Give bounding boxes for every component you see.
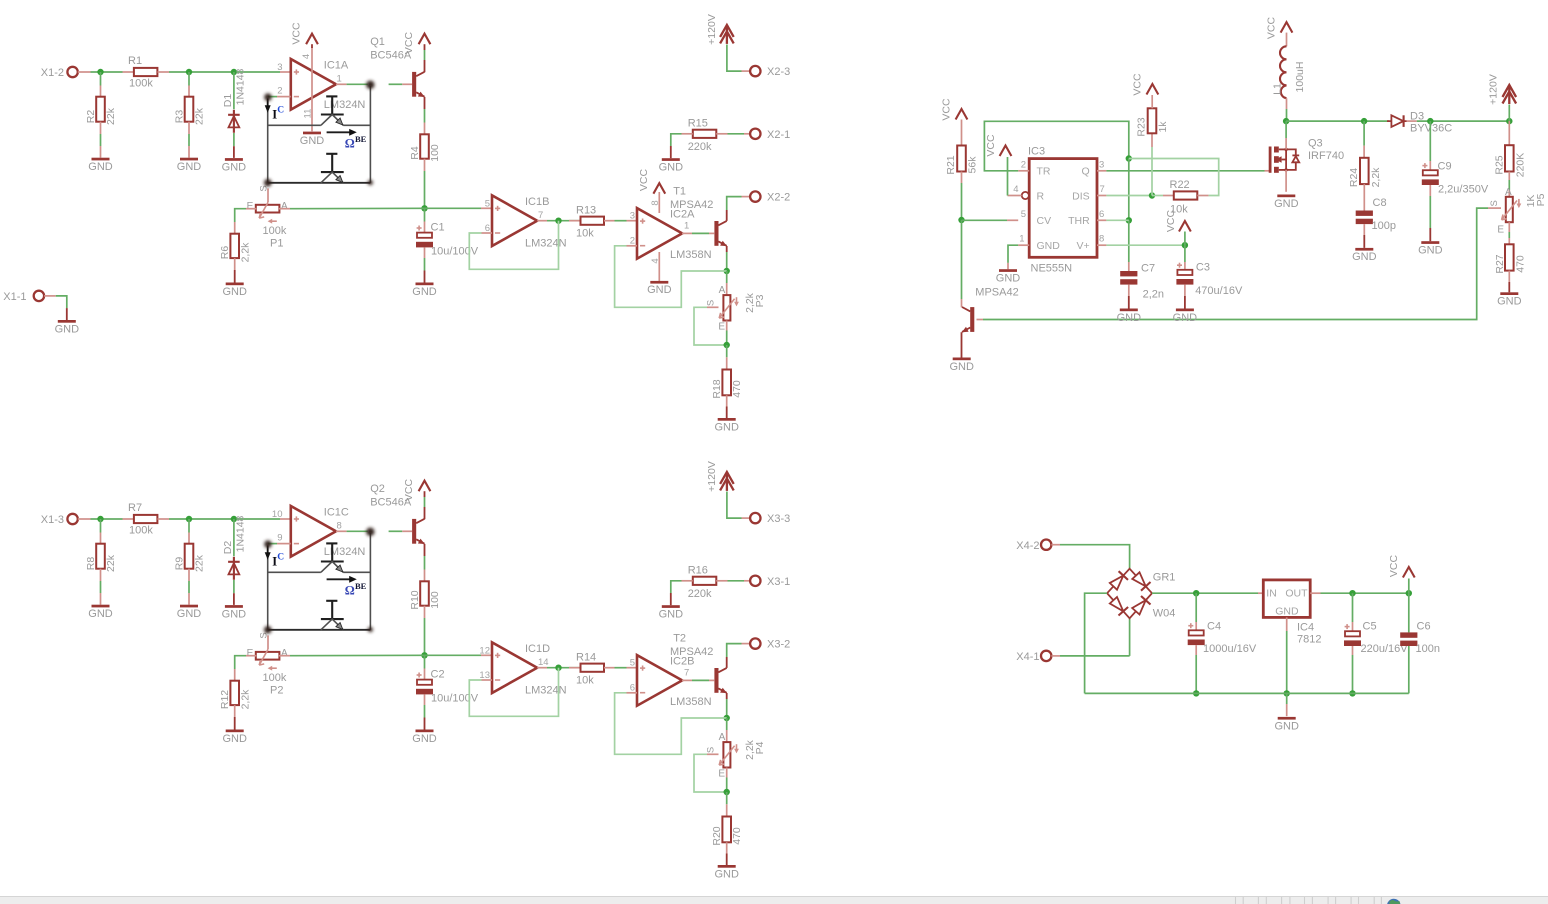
svg-text:C: C: [277, 553, 284, 563]
svg-text:C2: C2: [431, 669, 445, 681]
capacitor C8 100p: [1356, 196, 1396, 248]
power VCC arrow pin8: [1165, 209, 1191, 245]
svg-text:GND: GND: [1352, 251, 1377, 263]
capacitor C7 2,2n: [1120, 263, 1164, 309]
svg-text:2,2k: 2,2k: [240, 242, 252, 263]
svg-text:R10: R10: [409, 590, 421, 609]
wire Q3 source to ground: [1285, 170, 1287, 192]
wire pot A to node: [279, 654, 425, 656]
svg-text:P5: P5: [1535, 193, 1547, 206]
junction: [97, 516, 103, 522]
resistor R24 2,2k: [1348, 121, 1382, 196]
power +120V arrow: [706, 14, 750, 71]
svg-text:3: 3: [277, 62, 282, 73]
svg-text:S: S: [1489, 200, 1500, 206]
resistor R4 100: [409, 97, 441, 171]
svg-text:R21: R21: [945, 155, 957, 174]
svg-text:2: 2: [277, 86, 282, 97]
ground pin11: [300, 132, 325, 147]
ground: [177, 158, 202, 173]
svg-text:R8: R8: [85, 557, 97, 571]
resistor R16 220k: [671, 565, 750, 606]
svg-text:100k: 100k: [263, 672, 287, 684]
svg-text:C3: C3: [1196, 262, 1210, 274]
svg-text:Ω: Ω: [345, 137, 355, 151]
svg-text:GND: GND: [300, 135, 325, 147]
wire R4 to node: [424, 171, 426, 208]
resistor R3 22k: [174, 72, 206, 158]
svg-text:8: 8: [1099, 234, 1104, 245]
connector pad X3-3: [750, 513, 790, 525]
svg-text:BE: BE: [355, 581, 367, 591]
svg-text:T2: T2: [673, 633, 686, 645]
svg-text:P3: P3: [754, 294, 766, 307]
junction: [1193, 590, 1199, 596]
ground: [949, 358, 974, 373]
svg-text:GND: GND: [1117, 312, 1142, 324]
svg-text:9: 9: [277, 533, 282, 544]
annotation overlay sketch (channel 2): [264, 528, 374, 634]
resistor R6 2,2k: [219, 222, 251, 283]
svg-text:VCC: VCC: [403, 31, 415, 54]
resistor R2 22k: [85, 72, 117, 158]
IC3 pin numbers: [1013, 159, 1105, 244]
transistor Q2 BC546A: [370, 483, 425, 544]
svg-text:1N4148: 1N4148: [235, 515, 247, 552]
svg-text:22k: 22k: [105, 107, 117, 125]
wire R to opamp +in: [169, 518, 291, 520]
potentiometer P1 100k: [247, 185, 288, 249]
diode D2 1N4148: [222, 515, 247, 604]
wire opamp out to Q base: [336, 83, 412, 85]
junction: [1361, 118, 1367, 124]
svg-text:100k: 100k: [129, 525, 153, 537]
svg-text:X4-1: X4-1: [1016, 651, 1039, 663]
junction: [186, 69, 192, 75]
wire T collector to X3-2: [727, 644, 750, 668]
svg-text:S: S: [706, 300, 717, 306]
capacitor C4 1000u/16V: [1188, 593, 1257, 693]
svg-text:GND: GND: [1173, 312, 1198, 324]
svg-text:R2: R2: [85, 110, 97, 124]
ground: [1352, 248, 1377, 263]
ground: [55, 320, 80, 335]
svg-text:R23: R23: [1136, 117, 1148, 136]
connector pad X2-1: [750, 129, 790, 141]
wire TR-THR vertical: [1128, 159, 1130, 221]
capacitor C5 220u/16V: [1344, 593, 1408, 693]
svg-text:P1: P1: [270, 237, 283, 249]
junction: [958, 217, 964, 223]
ground: [222, 283, 247, 298]
connector pad X2-3: [750, 66, 790, 78]
resistor R22 10k: [1152, 179, 1209, 216]
svg-text:Q: Q: [1082, 166, 1090, 178]
svg-text:R12: R12: [219, 690, 231, 709]
svg-text:22k: 22k: [194, 107, 206, 125]
svg-text:R7: R7: [128, 502, 142, 514]
svg-text:A: A: [281, 201, 288, 212]
svg-text:A: A: [719, 732, 726, 743]
wire X1-2 to R junction: [91, 71, 123, 73]
wire R22 to TR-THR node: [1129, 159, 1219, 196]
op-amp IC1B LM324N: [485, 195, 567, 249]
svg-text:C6: C6: [1417, 621, 1431, 633]
wire X4-1 to bridge: [1060, 655, 1130, 657]
svg-text:2,2k: 2,2k: [240, 689, 252, 710]
resistor R14 10k: [569, 651, 615, 686]
svg-text:R1: R1: [128, 55, 142, 67]
wire IC4 OUT to VCC: [1310, 592, 1409, 594]
op-amp IC2A LM358N: [630, 186, 714, 262]
svg-text:X2-2: X2-2: [767, 192, 790, 204]
svg-text:10k: 10k: [576, 675, 594, 687]
wire opamp B out: [537, 667, 580, 669]
junction: [1427, 118, 1433, 124]
svg-text:GND: GND: [1037, 240, 1061, 252]
svg-text:D1: D1: [222, 94, 234, 108]
potentiometer P5 1K: [1488, 187, 1547, 236]
svg-text:100uH: 100uH: [1294, 62, 1306, 93]
svg-text:7812: 7812: [1297, 634, 1321, 646]
svg-text:Ω: Ω: [345, 584, 355, 598]
ground: [222, 158, 247, 173]
wire R21 to MPSA42 collector: [961, 220, 963, 307]
svg-text:220k: 220k: [688, 588, 712, 600]
svg-text:2: 2: [630, 235, 635, 246]
potentiometer P2 100k: [247, 632, 288, 696]
diode D3 BYV36C: [1387, 110, 1452, 134]
junction: [1349, 590, 1355, 596]
svg-text:IC1C: IC1C: [324, 506, 349, 518]
svg-text:3: 3: [1099, 159, 1104, 170]
bridge rectifier GR1 W04: [1107, 569, 1175, 620]
svg-text:X1-2: X1-2: [41, 67, 64, 79]
wire Q3 drain: [1285, 121, 1287, 149]
svg-text:VCC: VCC: [638, 168, 650, 191]
transistor Q1 BC546A: [370, 36, 425, 97]
svg-text:TR: TR: [1037, 166, 1051, 178]
svg-text:220k: 220k: [688, 141, 712, 153]
svg-text:GND: GND: [1275, 605, 1299, 617]
wire pot A to node: [279, 207, 425, 209]
op-amp IC2A power pin4 ground: [647, 252, 672, 296]
svg-text:GND: GND: [55, 323, 80, 335]
svg-text:470: 470: [731, 827, 743, 845]
svg-text:56k: 56k: [967, 156, 979, 174]
svg-text:100k: 100k: [263, 225, 287, 237]
wire Q pin3 to gate: [1097, 170, 1270, 172]
svg-text:+120V: +120V: [706, 461, 718, 492]
junction: [1283, 118, 1289, 124]
svg-text:GND: GND: [1418, 245, 1443, 257]
junction: [1506, 118, 1512, 124]
wire R13 to opamp C +in: [615, 220, 638, 222]
svg-text:8: 8: [337, 521, 342, 532]
junction: [555, 218, 561, 224]
svg-text:Q3: Q3: [1308, 137, 1323, 149]
annotation overlay sketch (channel 1): [264, 81, 374, 187]
svg-text:GND: GND: [1274, 721, 1299, 733]
junction: [97, 69, 103, 75]
connector pad X1-1: [3, 291, 67, 320]
wire T emitter to node: [726, 246, 728, 271]
svg-text:X3-3: X3-3: [767, 513, 790, 525]
potentiometer P4 2,2k: [706, 718, 766, 792]
svg-text:1k: 1k: [1157, 121, 1169, 133]
wire X1-3 to R junction: [91, 518, 123, 520]
svg-text:4: 4: [301, 54, 312, 59]
ground pin1: [996, 269, 1021, 284]
junction: [1126, 155, 1132, 161]
svg-text:Q2: Q2: [370, 483, 385, 495]
svg-text:GND: GND: [88, 161, 113, 173]
svg-text:GND: GND: [659, 162, 684, 174]
ground: [1117, 309, 1142, 324]
svg-text:VCC: VCC: [941, 98, 953, 121]
transistor MPSA42 (discharge): [962, 287, 1019, 333]
feedback wire opamp B: [469, 668, 558, 717]
wire GND pin1: [1008, 245, 1029, 269]
svg-text:GND: GND: [222, 161, 247, 173]
svg-text:470u/16V: 470u/16V: [1195, 285, 1243, 297]
svg-text:2,2u/350V: 2,2u/350V: [1438, 184, 1489, 196]
svg-text:LM324N: LM324N: [324, 99, 366, 111]
svg-text:5: 5: [630, 657, 635, 668]
svg-text:R: R: [1037, 190, 1045, 202]
junction: [724, 789, 730, 795]
ground: [222, 730, 247, 745]
svg-text:VCC: VCC: [985, 134, 997, 157]
svg-text:GND: GND: [177, 608, 202, 620]
resistor R23 1k: [1136, 95, 1170, 196]
IC3 pin4 inversion bubble: [1022, 192, 1029, 199]
svg-text:GND: GND: [222, 608, 247, 620]
transistor T1 MPSA42: [714, 221, 727, 246]
svg-text:LM324N: LM324N: [525, 684, 567, 696]
svg-text:1: 1: [1019, 234, 1024, 245]
op-amp IC1C LM324N: [272, 506, 366, 558]
resistor R20 470: [711, 792, 743, 865]
svg-text:1000u/16V: 1000u/16V: [1203, 643, 1257, 655]
svg-text:2: 2: [1021, 159, 1026, 170]
svg-text:VCC: VCC: [1388, 554, 1400, 577]
connector pad X4-2: [1016, 540, 1060, 552]
transistor T2 MPSA42: [714, 668, 727, 693]
junction: [555, 665, 561, 671]
ground: [1418, 241, 1443, 256]
svg-text:X1-1: X1-1: [3, 291, 26, 303]
connector pad X4-1: [1016, 651, 1060, 663]
wire MPSA42 emitter to ground: [961, 332, 963, 357]
svg-text:1N4148: 1N4148: [235, 68, 247, 105]
svg-text:IC2A: IC2A: [670, 209, 695, 221]
svg-text:P2: P2: [270, 684, 283, 696]
svg-text:100: 100: [429, 591, 441, 609]
feedback wire opamp B: [469, 221, 558, 270]
svg-text:GND: GND: [1497, 296, 1522, 308]
svg-text:NE555N: NE555N: [1031, 263, 1073, 275]
svg-text:D2: D2: [222, 541, 234, 555]
svg-text:X1-3: X1-3: [41, 514, 64, 526]
resistor R25 220K: [1494, 121, 1527, 198]
svg-text:R13: R13: [576, 204, 596, 216]
svg-text:LM358N: LM358N: [670, 249, 712, 261]
capacitor C1 10u/100V: [416, 208, 479, 282]
power VCC arrow Q collector: [403, 478, 430, 519]
resistor R27 470: [1494, 222, 1527, 292]
svg-text:A: A: [281, 648, 288, 659]
svg-text:CV: CV: [1037, 215, 1052, 227]
svg-text:C8: C8: [1373, 197, 1387, 209]
svg-text:10: 10: [272, 509, 283, 520]
wire opamp -in stub: [268, 96, 291, 98]
svg-text:IC1B: IC1B: [525, 196, 549, 208]
wire ground rail: [1085, 692, 1409, 694]
svg-text:22k: 22k: [194, 554, 206, 572]
capacitor C2 10u/100V: [416, 655, 479, 729]
svg-text:14: 14: [538, 657, 549, 668]
svg-text:IRF740: IRF740: [1308, 150, 1344, 162]
svg-text:IC1D: IC1D: [525, 643, 550, 655]
resistor R1 100k: [123, 55, 170, 90]
svg-text:GND: GND: [88, 608, 113, 620]
power +120V arrow: [706, 461, 750, 518]
svg-text:LM324N: LM324N: [525, 237, 567, 249]
svg-text:220K: 220K: [1515, 153, 1527, 178]
junction: [421, 205, 427, 211]
wire X4-2 to bridge: [1060, 545, 1130, 569]
svg-text:C7: C7: [1141, 263, 1155, 275]
wire bridge minus to rail: [1085, 593, 1108, 693]
svg-text:GND: GND: [949, 361, 974, 373]
wire switch node rail: [1286, 120, 1389, 122]
svg-text:R25: R25: [1494, 155, 1506, 174]
svg-text:OUT: OUT: [1285, 588, 1308, 600]
resistor R10 100: [409, 544, 441, 618]
bottom status bar: [0, 897, 1548, 904]
ground: [222, 605, 247, 620]
svg-text:5: 5: [485, 198, 490, 209]
ground IC4: [1274, 693, 1299, 732]
junction: [724, 268, 730, 274]
svg-text:VCC: VCC: [1132, 73, 1144, 96]
svg-text:E: E: [718, 322, 725, 333]
svg-text:1: 1: [337, 74, 342, 85]
IC3 pin names: [1037, 166, 1091, 252]
junction: [1193, 690, 1199, 696]
svg-text:IC4: IC4: [1297, 622, 1314, 634]
svg-text:L1: L1: [1272, 83, 1284, 95]
ground: [1497, 292, 1522, 307]
wire CV net: [962, 219, 1019, 221]
wire MPSA42 base net: [977, 208, 1489, 319]
resistor R9 22k: [174, 519, 206, 605]
svg-text:X3-1: X3-1: [767, 576, 790, 588]
ground: [714, 418, 739, 433]
resistor R12 2,2k: [219, 669, 251, 730]
svg-text:5: 5: [1021, 209, 1026, 220]
svg-text:THR: THR: [1068, 215, 1090, 227]
op-amp IC2B LM358N: [630, 633, 714, 709]
junction: [1126, 217, 1132, 223]
svg-text:E: E: [718, 769, 725, 780]
wire R to opamp +in: [169, 71, 291, 73]
wire reset pin4 to VCC: [1008, 157, 1022, 196]
svg-text:IN: IN: [1266, 588, 1277, 600]
junction: [1349, 690, 1355, 696]
wire R13 to opamp C +in: [615, 667, 638, 669]
svg-text:VCC: VCC: [1165, 209, 1177, 232]
svg-text:R24: R24: [1348, 168, 1360, 187]
ground: [88, 158, 113, 173]
ground: [412, 283, 437, 298]
svg-text:R9: R9: [174, 557, 186, 571]
svg-text:470: 470: [731, 380, 743, 398]
svg-text:GND: GND: [177, 161, 202, 173]
svg-text:22k: 22k: [105, 554, 117, 572]
feedback wire opamp C -in: [615, 246, 727, 307]
power VCC arrow L1: [1266, 16, 1293, 46]
resistor R18 470: [711, 345, 743, 418]
inductor L1 100uH: [1272, 46, 1306, 121]
svg-text:DIS: DIS: [1072, 190, 1090, 202]
power VCC arrow R23: [1132, 73, 1159, 96]
wire node to opamp B +in: [425, 654, 493, 656]
svg-text:7: 7: [538, 210, 543, 221]
wire opamp out to Q base: [336, 530, 412, 532]
svg-text:VCC: VCC: [1266, 16, 1278, 39]
wire bridge AC2 down: [1129, 618, 1131, 656]
connector pad X1-3: [41, 514, 91, 526]
svg-text:3: 3: [630, 210, 635, 221]
svg-text:100p: 100p: [1372, 220, 1396, 232]
svg-text:7: 7: [1100, 184, 1105, 195]
junction: [231, 69, 237, 75]
junction: [724, 342, 730, 348]
junction: [1284, 690, 1290, 696]
svg-text:X3-2: X3-2: [767, 639, 790, 651]
svg-text:R22: R22: [1170, 179, 1190, 191]
svg-text:W04: W04: [1153, 608, 1176, 620]
wire TR pin2 net: [984, 121, 1128, 171]
wire node to opamp B +in: [425, 207, 493, 209]
svg-text:A: A: [1505, 187, 1512, 198]
svg-text:X2-3: X2-3: [767, 66, 790, 78]
svg-text:R16: R16: [688, 565, 708, 577]
wire DIS pin7 net: [1097, 195, 1152, 197]
svg-text:R18: R18: [711, 379, 723, 398]
wire THR pin6: [1097, 219, 1129, 221]
svg-text:LM358N: LM358N: [670, 696, 712, 708]
svg-text:GND: GND: [222, 286, 247, 298]
resistor R7 100k: [123, 502, 170, 537]
svg-text:Q1: Q1: [370, 36, 385, 48]
wire T collector to X2-2: [727, 197, 750, 221]
svg-text:R15: R15: [688, 118, 708, 130]
svg-text:6: 6: [630, 682, 635, 693]
svg-text:4: 4: [1013, 184, 1018, 195]
svg-text:R14: R14: [576, 651, 596, 663]
svg-text:6: 6: [1099, 209, 1104, 220]
svg-text:C: C: [277, 106, 284, 116]
junction: [421, 652, 427, 658]
svg-text:X2-1: X2-1: [767, 129, 790, 141]
svg-text:R3: R3: [174, 110, 186, 124]
svg-text:7: 7: [684, 667, 689, 678]
svg-text:MPSA42: MPSA42: [975, 287, 1018, 299]
resistor R13 10k: [569, 204, 615, 239]
